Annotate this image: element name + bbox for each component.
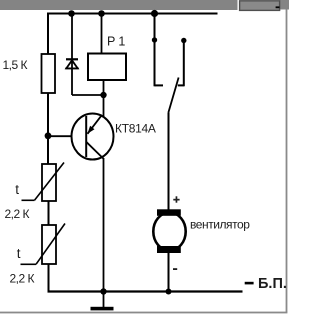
wire switch right pole xyxy=(183,41,185,87)
wire relay bottom pin xyxy=(103,80,105,117)
wire diode bottom to relay pin xyxy=(72,94,104,96)
window bottom border xyxy=(0,312,287,314)
label B.P. dash xyxy=(245,282,254,285)
wire to ground xyxy=(103,292,105,307)
wire RK2 to bottom rail xyxy=(48,264,50,293)
svg-text:2,2 К: 2,2 К xyxy=(10,272,35,286)
svg-text:t: t xyxy=(17,246,21,261)
svg-text:t: t xyxy=(15,182,19,197)
svg-text:Б.П.: Б.П. xyxy=(258,276,287,292)
svg-text:Р 1: Р 1 xyxy=(107,34,125,48)
svg-text:2,2 К: 2,2 К xyxy=(5,207,30,221)
diode VD1 xyxy=(65,59,78,68)
resistor R1 1,5K xyxy=(42,54,56,93)
wire base xyxy=(48,135,87,137)
wire left rail upper xyxy=(47,13,49,55)
wire resistor to base node xyxy=(47,93,49,164)
svg-text:1,5 К: 1,5 К xyxy=(3,58,28,72)
node fan bottom rail xyxy=(166,289,172,295)
wire switch to fan xyxy=(168,113,170,211)
wire top rail xyxy=(47,13,218,15)
node relay top xyxy=(98,10,105,17)
wire RK1 to RK2 xyxy=(48,201,50,225)
node switch right terminal xyxy=(181,38,186,43)
wire switch left pole xyxy=(154,14,156,87)
window right border xyxy=(286,10,288,313)
svg-text:КТ814А: КТ814А xyxy=(115,122,156,136)
wire diode branch xyxy=(71,14,73,96)
node base junction xyxy=(45,132,52,139)
node diode top xyxy=(68,10,75,17)
switch contact right stub xyxy=(178,84,184,86)
ground xyxy=(91,307,114,311)
wire fan to bottom rail xyxy=(168,253,170,292)
thermistor RK1 xyxy=(22,163,65,202)
wire bottom rail xyxy=(48,290,243,292)
window title bar xyxy=(0,0,289,10)
node switch left terminal xyxy=(152,37,157,42)
relay coil P1 xyxy=(88,54,126,81)
switch lever K1 xyxy=(168,78,178,113)
node ground junction xyxy=(100,288,106,294)
window button xyxy=(240,1,280,11)
wire emitter lead down xyxy=(103,158,105,292)
label plus xyxy=(173,196,179,202)
wire relay top pin xyxy=(101,14,103,54)
transistor Q1 KT814A xyxy=(72,114,114,160)
motor M1 fan xyxy=(153,209,185,253)
thermistor RK2 xyxy=(21,224,66,265)
switch contact left stub xyxy=(155,84,164,86)
node collector junction xyxy=(100,92,106,98)
svg-text:вентилятор: вентилятор xyxy=(190,218,250,232)
node switch left top xyxy=(151,10,158,17)
label minus xyxy=(173,268,177,270)
